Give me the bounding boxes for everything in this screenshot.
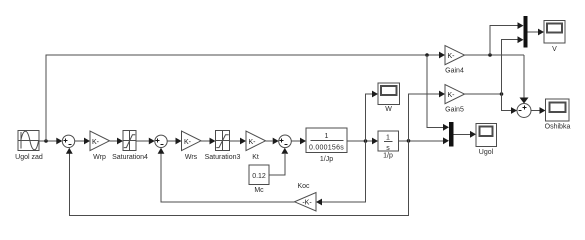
svg-text:Wrs: Wrs (185, 154, 198, 161)
svg-text:K-: K- (184, 139, 192, 146)
wire: Sum1 to Wrp (75, 140, 84, 142)
arrowhead into 1/Jp (300, 138, 306, 145)
svg-text:Ugol zad: Ugol zad (15, 154, 43, 161)
arrowhead into Scope V (538, 29, 544, 36)
svg-text:1/Jp: 1/Jp (320, 156, 333, 163)
wire: 1/p output to Mux2 input 2 (399, 140, 444, 142)
wire: Sum3 to 1/Jp (291, 140, 300, 142)
node: junction Gain5 output (500, 92, 504, 96)
wire: 1/Jp to 1/p (347, 140, 372, 142)
wire: Sum2 to Wrs (167, 140, 175, 142)
arrowhead into Sum1 bottom (66, 148, 73, 154)
sum Sum1 (62, 135, 74, 147)
svg-text:Ugol: Ugol (479, 149, 494, 156)
wire: Ugol signal up to Gain5 (409, 94, 440, 141)
gain Gain5 (445, 85, 465, 104)
arrowhead into Sum2 bottom (158, 148, 165, 154)
node: junction on Gain4 input line (425, 53, 429, 57)
gain Koc (295, 193, 317, 212)
wire: Mux1 output to Scope V (528, 31, 538, 33)
arrowhead into Gain4 (439, 52, 445, 59)
svg-text:K-: K- (448, 53, 456, 60)
source block Ugol zad (18, 131, 39, 151)
svg-text:s: s (386, 145, 390, 152)
arrowhead into Koc (316, 199, 322, 206)
arrowhead into Mux2 input 2 (443, 137, 449, 144)
svg-text:Koc: Koc (297, 183, 310, 190)
gain Gain4 (445, 46, 465, 65)
arrowhead into Scope Oshibka (540, 107, 546, 114)
arrowhead into Scope Ugol (470, 131, 476, 138)
svg-text:K-: K- (448, 92, 456, 99)
mux Mux2 (Ugol) (449, 122, 453, 147)
svg-text:Wrp: Wrp (93, 154, 106, 161)
constant Mc (249, 165, 269, 185)
arrowhead into Saturation4 (117, 138, 123, 145)
svg-text:0.000156s: 0.000156s (309, 145, 344, 152)
svg-text:W: W (385, 106, 392, 113)
svg-text:V: V (552, 46, 557, 53)
wire: Sum4 to Scope Oshibka (531, 110, 540, 112)
transfer function 1/Jp (306, 128, 347, 153)
wire: outer feedback Ugol to Sum1 (69, 141, 408, 216)
wire: Ugol zad output to Sum1 (40, 140, 58, 142)
wire: Ugol zad down to Mux1 input 1 (427, 55, 443, 127)
wire: Gain5 down to Sum4 left (502, 94, 512, 111)
wire: Saturation4 to Sum2 (136, 140, 149, 142)
gain Wrp (90, 131, 110, 151)
wire: Gain4 up to Mux1 input 1 (490, 26, 518, 55)
sum Sum2 (155, 135, 167, 147)
svg-text:1/p: 1/p (383, 153, 393, 160)
integrator 1/p (378, 131, 399, 152)
svg-text:0.12: 0.12 (252, 173, 266, 180)
svg-text:K-: K- (92, 139, 100, 146)
svg-text:Oshibka: Oshibka (545, 124, 571, 131)
wire: Gain5 output (465, 93, 502, 95)
node: junction Gain4 output (488, 53, 492, 57)
wire: Wrp to Saturation4 (110, 140, 118, 142)
mux Mux1 (V) (524, 16, 528, 48)
arrowhead into Mux1 top (518, 22, 524, 29)
scope Oshibka (546, 99, 570, 121)
scope Ugol (476, 124, 497, 147)
wire: Gain4 output across (465, 54, 525, 56)
scope W (378, 83, 400, 105)
sum Sum3 (279, 135, 292, 148)
sum Sum4 (Oshibka) (517, 104, 531, 118)
svg-text:Saturation3: Saturation3 (205, 154, 241, 161)
svg-text:Gain4: Gain4 (445, 68, 464, 75)
arrowhead into Mux1 input 1 (443, 124, 449, 131)
wire: Gain5 up to Mux1 input 2 (502, 40, 518, 94)
svg-text:Gain5: Gain5 (445, 107, 464, 114)
svg-text:1: 1 (325, 133, 329, 140)
arrowhead into Wrs (176, 138, 182, 145)
svg-text:K-: K- (249, 139, 257, 146)
gain Wrs (182, 131, 202, 151)
wire: Mux2 output to Scope Ugol (453, 133, 470, 135)
wire: Gain4 down to Sum4 top (523, 55, 525, 98)
svg-text:-K-: -K- (302, 200, 312, 207)
arrowhead into Sum2 (149, 138, 155, 145)
saturation Saturation4 (123, 131, 136, 151)
wire: Koc output to Sum2 (161, 154, 295, 202)
svg-text:Kt: Kt (252, 154, 259, 161)
arrowhead into Sum3 (273, 138, 279, 145)
svg-text:Mc: Mc (254, 187, 264, 194)
wire: Kt to Sum3 (266, 140, 273, 142)
arrowhead into Gain5 (439, 91, 445, 98)
wire: Mc to Sum3 (269, 154, 285, 175)
wire: W signal up to Scope W (366, 94, 373, 141)
svg-text:1: 1 (386, 135, 390, 142)
arrowhead into Kt (240, 138, 246, 145)
wire: Wrs to Saturation3 (201, 140, 210, 142)
arrowhead into Sum1 (56, 138, 62, 145)
node: junction W signal (364, 139, 368, 143)
arrowhead into Wrp (84, 138, 90, 145)
scope V (544, 21, 565, 44)
arrowhead into Scope W (372, 91, 378, 98)
node: junction Ugol signal (407, 139, 411, 143)
svg-text:Saturation4: Saturation4 (112, 154, 148, 161)
saturation Saturation3 (216, 131, 230, 151)
arrowhead into Mux1 bottom (518, 36, 524, 43)
arrowhead into Sum3 bottom (281, 148, 288, 154)
arrowhead into 1/p (372, 138, 378, 145)
node: junction on Ugol zad wire (44, 139, 48, 143)
arrowhead into Sum4 left (511, 107, 517, 114)
wire: Saturation3 to Kt (230, 140, 241, 142)
arrowhead into Sum4 top (520, 98, 529, 104)
wire: Ugol zad up and across to Gain4 (46, 55, 439, 141)
wire: W signal down to Koc (322, 141, 366, 202)
gain Kt (246, 131, 266, 151)
arrowhead into Saturation3 (210, 138, 216, 145)
